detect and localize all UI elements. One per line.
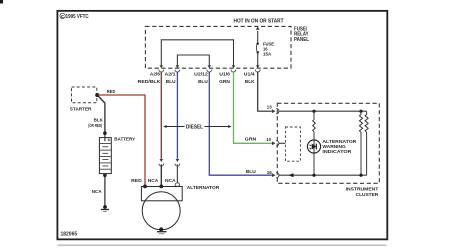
copyright label bbox=[60, 13, 89, 20]
ground battery bbox=[101, 205, 109, 212]
svg-text:(OR RED): (OR RED) bbox=[88, 123, 102, 129]
svg-text:WARNING: WARNING bbox=[322, 144, 346, 150]
label ALTERNATOR WARNING INDICATOR bbox=[322, 139, 356, 155]
svg-text:RED/BLK: RED/BLK bbox=[138, 79, 161, 85]
svg-text:RED: RED bbox=[107, 89, 116, 95]
wire NCA grey to alternator terminal bbox=[176, 164, 178, 182]
wire NCA black to alternator bbox=[160, 164, 162, 186]
connector exit U2/12 bbox=[207, 65, 212, 72]
wire RED from starter to alternator bbox=[97, 95, 145, 186]
bottom edge bar bbox=[58, 244, 387, 246]
connector exit A2/6 bbox=[159, 65, 164, 72]
inline connector on RED/BLK wire bbox=[159, 159, 164, 166]
DIESEL option line bbox=[163, 124, 231, 130]
svg-text:BLK: BLK bbox=[94, 118, 104, 124]
svg-text:NCA: NCA bbox=[92, 189, 102, 195]
pin 10 connector bbox=[266, 137, 279, 146]
svg-text:NCA: NCA bbox=[148, 178, 159, 184]
label BLK (OR RED) bbox=[88, 118, 103, 130]
resistor left in cluster bbox=[359, 110, 362, 177]
alternator warning indicator lamp bbox=[307, 140, 320, 153]
svg-text:13: 13 bbox=[267, 105, 272, 111]
pin label A2/1 BLU bbox=[165, 72, 176, 85]
connector exit A2/1 bbox=[175, 65, 180, 72]
fuse/relay panel dashed box bbox=[145, 26, 291, 68]
bus wire A2/1 to U2/12 bbox=[177, 55, 209, 65]
svg-text:BLU: BLU bbox=[166, 79, 176, 85]
starter dashed box bbox=[72, 87, 97, 103]
pin label U1/6 GRN bbox=[219, 72, 230, 85]
label INSTRUMENT CLUSTER bbox=[346, 187, 379, 198]
direction arrow on bottom wire bbox=[289, 173, 294, 177]
svg-text:BATTERY: BATTERY bbox=[114, 136, 135, 142]
svg-text:15A: 15A bbox=[263, 52, 272, 58]
svg-text:1995 VFTC: 1995 VFTC bbox=[66, 14, 89, 20]
junction dot at alternator bbox=[159, 185, 163, 189]
svg-text:A2/1: A2/1 bbox=[165, 72, 176, 78]
cluster top wire from pin 13 bbox=[279, 110, 367, 112]
svg-text:ALTERNATOR: ALTERNATOR bbox=[187, 185, 220, 191]
wire through indicator to bottom bbox=[313, 140, 315, 175]
svg-text:PANEL: PANEL bbox=[294, 37, 309, 43]
svg-text:A2/6: A2/6 bbox=[150, 72, 161, 78]
pin label A2/6 RED/BLK bbox=[138, 72, 161, 85]
connector exit U1/4 bbox=[255, 65, 260, 72]
wire RED/BLK from A2/6 to alternator connector bbox=[160, 72, 162, 159]
corner mark bbox=[0, 0, 3, 4]
label FUSE/RELAY PANEL bbox=[294, 26, 309, 43]
junction dot below indicator bbox=[312, 174, 315, 177]
wire battery to ground bbox=[104, 174, 106, 206]
alternator bbox=[141, 187, 182, 230]
svg-text:BLU: BLU bbox=[246, 169, 256, 175]
svg-text:RED: RED bbox=[131, 178, 142, 184]
wire BLK from U1/4 to cluster pin 13 bbox=[258, 72, 272, 111]
instrument cluster dashed box bbox=[277, 103, 379, 183]
fuse 16 15A bbox=[256, 26, 275, 65]
svg-text:182065: 182065 bbox=[61, 231, 78, 237]
svg-text:HOT IN ON OR START: HOT IN ON OR START bbox=[234, 18, 285, 24]
diagram border frame bbox=[57, 11, 387, 240]
terminal eyelet bbox=[175, 183, 179, 187]
svg-text:U2/12: U2/12 bbox=[194, 72, 208, 78]
svg-text:16: 16 bbox=[267, 170, 272, 176]
resistor above indicator bbox=[312, 110, 315, 141]
svg-text:BLU: BLU bbox=[198, 79, 208, 85]
pin label U2/12 BLU bbox=[194, 72, 208, 85]
voltage stabilizer dashed box bbox=[285, 127, 300, 161]
cluster pin 10 stub wire bbox=[279, 142, 286, 144]
svg-text:DIESEL: DIESEL bbox=[186, 124, 204, 130]
bus wire A2/6 to U1/6 bbox=[161, 40, 233, 66]
battery bbox=[99, 131, 111, 173]
svg-text:BLK: BLK bbox=[245, 79, 255, 85]
pin 16 connector bbox=[267, 170, 279, 178]
wire BLU from A2/1 to alternator connector bbox=[176, 72, 178, 159]
svg-text:INDICATOR: INDICATOR bbox=[322, 149, 351, 155]
battery bottom terminal bbox=[103, 174, 107, 178]
svg-text:10: 10 bbox=[266, 137, 271, 143]
wire GRN from U1/6 to cluster pin 10 bbox=[234, 72, 272, 144]
svg-text:STARTER: STARTER bbox=[70, 107, 92, 113]
svg-text:ALTERNATOR: ALTERNATOR bbox=[322, 139, 356, 145]
svg-text:U1/4: U1/4 bbox=[244, 72, 255, 78]
alternator wire labels RED NCA NCA bbox=[131, 178, 176, 184]
junction node at starter bbox=[95, 93, 99, 97]
svg-text:U1/6: U1/6 bbox=[219, 72, 230, 78]
svg-text:NCA: NCA bbox=[165, 178, 176, 184]
svg-text:GRN: GRN bbox=[219, 79, 230, 85]
pin label U1/4 BLK bbox=[244, 72, 255, 85]
wire BLU from U2/12 to cluster pin 16 bbox=[209, 72, 271, 175]
connector exit U1/6 bbox=[231, 65, 236, 72]
junction dot red wire at alternator bbox=[143, 185, 147, 189]
cluster bottom wire from pin 16 bbox=[279, 174, 367, 176]
pin 13 connector bbox=[267, 105, 279, 114]
svg-text:c: c bbox=[61, 14, 64, 20]
svg-text:GRN: GRN bbox=[245, 137, 257, 143]
resistor right in cluster bbox=[365, 111, 368, 175]
wire BLK from starter to battery bbox=[97, 95, 105, 133]
inline connector on BLU wire bbox=[175, 159, 180, 166]
svg-text:CLUSTER: CLUSTER bbox=[356, 192, 379, 198]
ground alternator bbox=[157, 227, 167, 233]
svg-text:INSTRUMENT: INSTRUMENT bbox=[346, 187, 379, 193]
